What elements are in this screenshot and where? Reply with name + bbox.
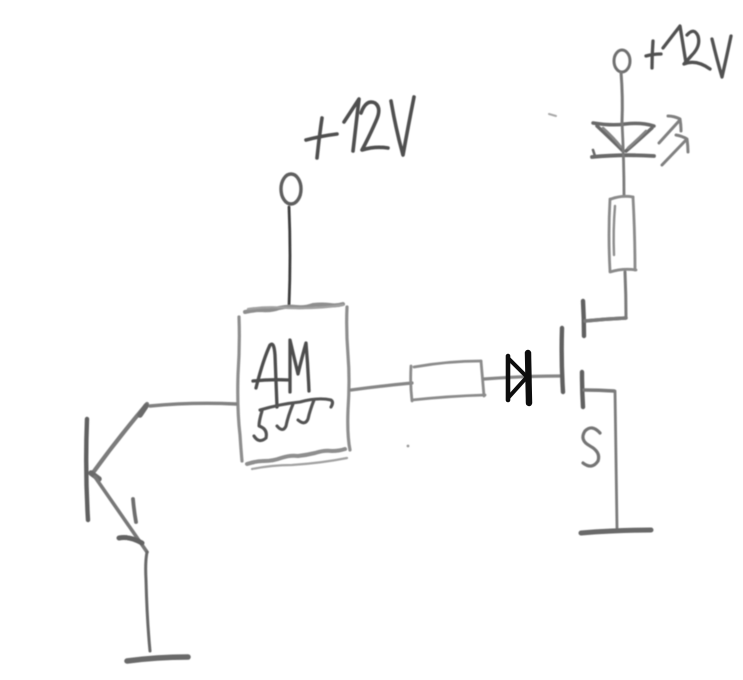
label +12V (top middle) <box>306 97 414 158</box>
wire emitter to ground <box>146 552 150 651</box>
emitter arrow barbs <box>133 499 136 522</box>
wire drain stub <box>585 318 626 321</box>
wire resistor R2 down <box>625 272 626 318</box>
text 555 <box>254 399 333 441</box>
transistor Q1 collector <box>92 404 147 474</box>
label S <box>583 428 600 466</box>
ground (bottom right) <box>581 530 651 533</box>
label +12V (top right) <box>646 26 731 77</box>
ground (bottom left) <box>127 657 188 661</box>
wire box to transistor (left) <box>150 403 236 406</box>
text AM <box>253 340 309 407</box>
LED D2 <box>592 123 654 157</box>
box AM555 outline <box>238 304 350 469</box>
wire node to LED <box>621 72 622 122</box>
resistor R2 (vertical) <box>609 196 636 272</box>
mosfet Q2 gate bar <box>562 328 563 392</box>
resistor R1 (horizontal) <box>411 361 485 401</box>
node +12V (top middle) <box>281 174 301 204</box>
wire source stub <box>584 390 614 391</box>
wire LED through <box>622 122 624 196</box>
transistor Q1 emitter <box>95 477 147 552</box>
LED arrows <box>659 116 688 165</box>
mosfet Q2 source segment <box>582 372 583 407</box>
speck <box>407 445 410 448</box>
wire corner to drain <box>585 318 626 321</box>
wire source to ground <box>615 391 617 528</box>
speck <box>549 114 556 116</box>
wire box to resistor R1 <box>351 383 412 390</box>
wire node to box <box>289 207 290 306</box>
mosfet Q2 drain segment <box>583 301 584 336</box>
transistor Q1 base bar <box>86 419 88 520</box>
wire resistor to mosfet gate (passes diode) <box>484 376 560 379</box>
node +12V (top right) <box>614 50 630 72</box>
diode D1 (black ink) <box>508 353 529 403</box>
